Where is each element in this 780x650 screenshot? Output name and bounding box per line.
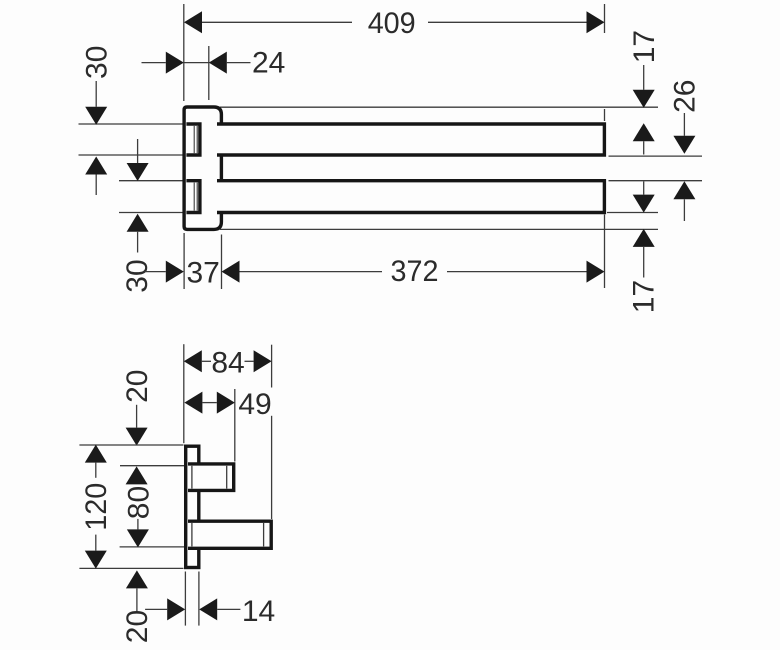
- bottom view stub bar2 bottom: [120, 546, 185, 548]
- dimension 372 line: [222, 261, 240, 283]
- extension stub bar2 bottom left: [119, 212, 184, 214]
- wall plate (side view): [184, 107, 221, 229]
- dimension 20 top arrows: [136, 405, 138, 428]
- svg-text:80: 80: [123, 486, 156, 519]
- bottom view stub bar1 top: [120, 465, 185, 467]
- bottom view extension line wall face: [183, 344, 185, 443]
- svg-text:30: 30: [81, 46, 114, 79]
- svg-text:17: 17: [628, 30, 661, 63]
- bottom view stub plate top: [79, 444, 183, 446]
- bottom view stub plate bottom: [79, 567, 183, 569]
- extension line right bottom (x=604.5): [604, 215, 606, 289]
- svg-text:20: 20: [121, 610, 154, 643]
- bottom view extension line bar1 end: [234, 389, 236, 462]
- svg-text:37: 37: [187, 257, 220, 290]
- svg-text:120: 120: [80, 483, 113, 531]
- dimension 24 line: [142, 62, 166, 64]
- dimension 17 top-right arrows: [643, 65, 645, 90]
- extension stub bar2 bottom right: [607, 212, 658, 214]
- side view: plate top projection line: [220, 106, 658, 108]
- svg-text:14: 14: [242, 595, 275, 628]
- hinge pin lines bar 2: [193, 183, 195, 211]
- dimension 30 bottom-left arrows: [137, 139, 139, 163]
- hinge block bar 2: [186, 181, 200, 213]
- side view: plate bottom projection line: [220, 228, 658, 230]
- extension line below plate right: [221, 235, 223, 290]
- svg-text:20: 20: [121, 370, 154, 403]
- extension stub bar1 bottom left: [79, 154, 185, 156]
- bar 2 (side view): [217, 181, 604, 213]
- svg-text:84: 84: [211, 346, 244, 379]
- extension line below plate left: [183, 233, 185, 289]
- dimension 80 arrows: [137, 519, 139, 530]
- dimension 20 bottom arrows: [126, 570, 148, 588]
- bar 1 (side view): [217, 124, 604, 155]
- wall plate (bottom view): [186, 446, 199, 567]
- dimension 120 arrows: [85, 445, 107, 463]
- svg-text:30: 30: [121, 259, 154, 292]
- bottom view extension line bar2 end: [271, 345, 273, 388]
- dimension 14 line: [145, 608, 167, 610]
- svg-text:49: 49: [238, 388, 271, 421]
- extension stub bar1 bottom right: [609, 155, 703, 157]
- bar 2 (bottom view): [188, 521, 271, 548]
- hinge block bar 1: [186, 124, 200, 155]
- svg-text:372: 372: [391, 255, 439, 288]
- hinge pin lines bar 1: [193, 126, 195, 153]
- extension line hinge axis (x=209): [208, 46, 210, 100]
- dimension 409 line: [202, 21, 352, 23]
- svg-text:26: 26: [669, 80, 702, 113]
- dimension 17 bottom-right arrows: [643, 182, 645, 195]
- svg-text:409: 409: [368, 7, 416, 40]
- extension line right mid (x=604.5): [604, 109, 606, 121]
- extension lines below plate (bottom view): [184, 572, 186, 626]
- extension stub bar1 top left: [79, 123, 185, 125]
- dimension 37 line: [145, 271, 166, 273]
- dimension 84 line: [184, 350, 202, 372]
- dimension 26 arrows: [683, 113, 685, 136]
- svg-text:17: 17: [627, 280, 660, 313]
- extension line left (x=184): [183, 4, 185, 101]
- bar 1 inner lines (bottom view): [191, 466, 193, 489]
- dimension 49 line: [184, 392, 202, 414]
- svg-text:24: 24: [252, 47, 285, 80]
- dimension 30 top-left arrows: [95, 81, 97, 107]
- bar 2 inner lines (bottom view): [191, 523, 193, 546]
- extension stub bar2 top right: [609, 180, 703, 182]
- extension stub bar2 top left: [119, 180, 184, 182]
- bar 1 (bottom view): [188, 464, 234, 491]
- extension line right top (x=604.5): [604, 4, 606, 33]
